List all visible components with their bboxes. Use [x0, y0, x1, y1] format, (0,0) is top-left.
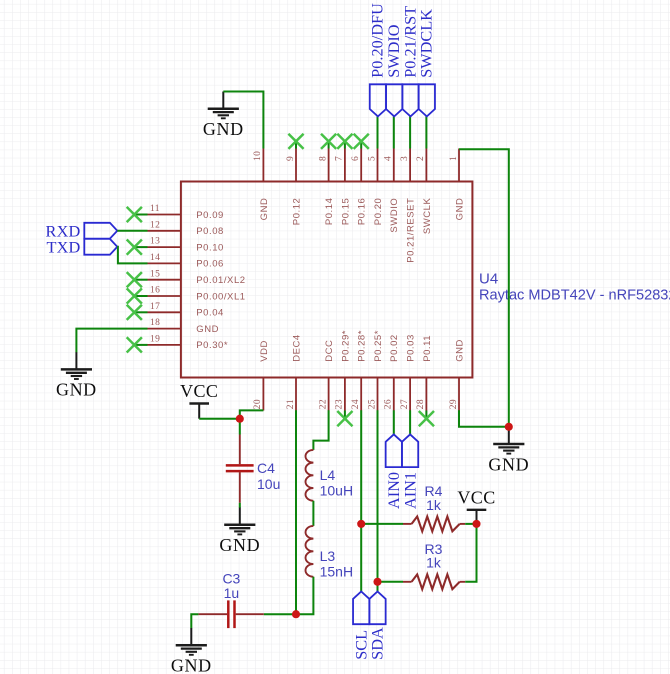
wire R3 left — [378, 581, 404, 583]
capacitor C3 — [198, 570, 263, 628]
svg-text:5: 5 — [367, 156, 377, 161]
svg-text:1: 1 — [449, 156, 459, 161]
wire P0.20/DFU flag to pin — [377, 116, 379, 148]
pin 10 GND (top) — [253, 149, 270, 221]
svg-text:28: 28 — [416, 399, 426, 409]
wire R3 right up to VCC junction — [465, 524, 476, 582]
pin 26 P0.02 (bottom) — [384, 334, 401, 410]
pin 4 SWDIO (top) — [384, 149, 401, 233]
svg-text:2: 2 — [416, 156, 426, 161]
netflag AIN1 — [400, 434, 419, 509]
svg-text:P0.25*: P0.25* — [373, 330, 384, 362]
netflag SCL — [351, 592, 370, 660]
ground symbol (left, pin 18) — [56, 352, 97, 400]
svg-text:P0.04: P0.04 — [196, 308, 224, 319]
svg-text:TXD: TXD — [46, 238, 80, 257]
svg-text:VCC: VCC — [180, 381, 218, 401]
svg-text:9: 9 — [286, 156, 296, 161]
pin 24 P0.28* (bottom) — [351, 330, 368, 411]
netflag TXD — [46, 238, 117, 257]
pin 11 P0.09 (left) — [148, 204, 224, 221]
wire C4 to ground — [239, 503, 241, 508]
svg-text:P0.14: P0.14 — [324, 198, 335, 226]
svg-text:GND: GND — [203, 119, 244, 139]
pin 17 P0.04 (left) — [148, 302, 224, 319]
no-connect flag pin 19 — [127, 337, 148, 352]
pin 21 DEC4 (bottom) — [286, 334, 303, 410]
pin 19 P0.30* (left) — [148, 335, 229, 352]
pin 7 P0.15 (top) — [335, 149, 352, 226]
pin 13 P0.10 (left) — [148, 237, 224, 254]
svg-text:3: 3 — [400, 156, 410, 161]
pin 20 VDD (bottom) — [253, 340, 270, 410]
svg-text:P0.10: P0.10 — [196, 242, 224, 253]
pin 28 P0.11 (bottom) — [416, 335, 433, 411]
wire pin25 down to SDA — [377, 410, 379, 591]
svg-text:14: 14 — [150, 253, 160, 263]
svg-text:P0.01/XL2: P0.01/XL2 — [196, 275, 245, 286]
svg-text:GND: GND — [488, 454, 529, 474]
svg-text:P0.21/RESET: P0.21/RESET — [406, 198, 417, 263]
inductor L4 — [306, 450, 354, 501]
svg-text:P0.16: P0.16 — [357, 198, 368, 226]
no-connect flag pin 11 — [127, 207, 148, 222]
svg-text:SDA: SDA — [368, 627, 387, 660]
svg-text:P0.20: P0.20 — [373, 198, 384, 226]
netflag SWDCLK — [417, 9, 436, 117]
no-connect flag pin 7 — [337, 134, 352, 149]
svg-text:10uH: 10uH — [320, 483, 353, 499]
no-connect flag pin 17 — [127, 305, 148, 320]
wire C3 left to ground — [191, 614, 198, 628]
pin 22 DCC (bottom) — [318, 340, 335, 411]
pin 29 GND (bottom) — [449, 339, 466, 410]
svg-text:SWCLK: SWCLK — [422, 197, 433, 234]
svg-text:12: 12 — [150, 220, 160, 230]
inductor L3 — [305, 526, 353, 580]
junction dot — [505, 423, 513, 431]
junction dot — [357, 520, 365, 528]
svg-text:DEC4: DEC4 — [291, 334, 302, 362]
ground symbol (right, pin 29) — [488, 427, 529, 475]
wire pin to AIN0 flag — [393, 410, 395, 434]
wire pin1 to right vertical bus — [459, 149, 509, 427]
wire pin10 to top ground — [223, 92, 263, 149]
no-connect flag pin 9 — [288, 134, 303, 149]
svg-text:13: 13 — [150, 237, 160, 247]
svg-text:P0.30*: P0.30* — [196, 340, 228, 351]
pin 18 GND (left) — [148, 318, 220, 335]
svg-text:VDD: VDD — [259, 340, 270, 362]
pin 25 P0.25* (bottom) — [367, 330, 384, 411]
svg-text:8: 8 — [318, 156, 328, 161]
svg-text:GND: GND — [56, 380, 97, 400]
wire TXD to pin14 — [117, 247, 147, 264]
svg-text:7: 7 — [335, 156, 345, 161]
junction dot — [292, 610, 300, 618]
svg-text:16: 16 — [150, 286, 160, 296]
svg-text:P0.00/XL1: P0.00/XL1 — [196, 291, 245, 302]
pin 14 P0.06 (left) — [148, 253, 224, 270]
svg-text:4: 4 — [384, 156, 394, 161]
pin 23 P0.29* (bottom) — [335, 330, 352, 411]
wire L4 to L3 — [312, 501, 314, 526]
junction dot — [373, 578, 381, 586]
netflag P0.21/RST — [400, 6, 419, 117]
svg-text:P0.12: P0.12 — [291, 198, 302, 226]
junction dot — [236, 415, 244, 423]
junction dot — [472, 520, 480, 528]
capacitor C4 — [226, 435, 281, 503]
no-connect flag pin 8 — [321, 134, 336, 149]
svg-text:19: 19 — [150, 335, 160, 345]
svg-text:SWDIO: SWDIO — [389, 198, 400, 233]
netflag AIN0 — [384, 434, 403, 509]
svg-text:15nH: 15nH — [320, 564, 353, 580]
pin 12 P0.08 (left) — [148, 220, 224, 237]
wire pin29 to ground junction — [459, 410, 509, 427]
pin 8 P0.14 (top) — [318, 149, 335, 226]
svg-text:P0.11: P0.11 — [422, 335, 433, 362]
svg-text:SWDCLK: SWDCLK — [417, 9, 436, 78]
svg-text:1k: 1k — [426, 497, 442, 513]
wire L3 down to C3 junction — [296, 577, 313, 614]
pin 9 P0.12 (top) — [286, 149, 303, 226]
svg-text:24: 24 — [351, 399, 361, 409]
svg-text:18: 18 — [150, 318, 160, 328]
netflag P0.20/DFU — [368, 3, 387, 116]
no-connect flag pin 16 — [127, 288, 148, 303]
pin 2 SWCLK (top) — [416, 149, 433, 235]
pin 16 P0.00/XL1 (left) — [148, 286, 246, 303]
svg-text:27: 27 — [400, 399, 410, 409]
svg-text:P0.29*: P0.29* — [340, 330, 351, 362]
svg-text:26: 26 — [384, 399, 394, 409]
wire RXD to pin12 — [117, 230, 147, 232]
wire junction to C4 — [239, 419, 241, 435]
wire pin to AIN1 flag — [409, 410, 411, 434]
wire SWDCLK flag to pin — [425, 116, 427, 148]
wire P0.21/RST flag to pin — [409, 116, 411, 148]
pin 6 P0.16 (top) — [351, 149, 368, 226]
netflag RXD — [46, 221, 118, 240]
svg-text:10: 10 — [253, 151, 263, 161]
wire pin24 down to SCL — [360, 410, 362, 591]
svg-text:17: 17 — [150, 302, 160, 312]
wire R4 left — [361, 523, 403, 525]
svg-text:GND: GND — [454, 198, 465, 221]
svg-text:C4: C4 — [257, 460, 275, 476]
svg-text:21: 21 — [286, 399, 296, 409]
svg-text:U4: U4 — [479, 271, 498, 288]
pin 5 P0.20 (top) — [367, 149, 384, 226]
resistor R4 — [403, 483, 465, 531]
svg-text:11: 11 — [150, 204, 160, 214]
svg-text:P0.03: P0.03 — [406, 334, 417, 362]
svg-text:AIN1: AIN1 — [400, 472, 419, 509]
pin 1 GND (top) — [449, 149, 466, 221]
svg-text:20: 20 — [253, 399, 263, 409]
svg-text:GND: GND — [454, 339, 465, 362]
netflag SDA — [368, 592, 387, 660]
svg-text:29: 29 — [449, 399, 459, 409]
svg-text:P0.08: P0.08 — [196, 226, 224, 237]
wire pin22 DCC to L4 — [313, 410, 328, 450]
svg-text:25: 25 — [367, 399, 377, 409]
svg-text:GND: GND — [196, 324, 219, 335]
no-connect flag pin 6 — [354, 134, 369, 149]
IC U4 body — [181, 182, 473, 378]
svg-text:P0.06: P0.06 — [196, 259, 224, 270]
svg-text:P0.02: P0.02 — [389, 334, 400, 362]
svg-text:P0.28*: P0.28* — [357, 330, 368, 362]
no-connect flag pin 23 — [337, 411, 352, 427]
svg-text:Raytac MDBT42V - nRF52832: Raytac MDBT42V - nRF52832 — [479, 287, 670, 304]
pin 27 P0.03 (bottom) — [400, 334, 417, 410]
svg-text:GND: GND — [259, 198, 270, 221]
svg-text:DCC: DCC — [324, 340, 335, 362]
wire pin21 DEC4 down to C3 junction — [295, 410, 297, 614]
power flag VCC (R4/R3) — [457, 487, 495, 524]
wire pin18 to left ground — [76, 329, 147, 353]
netflag SWDIO — [384, 24, 403, 116]
svg-text:L4: L4 — [320, 467, 336, 483]
svg-text:6: 6 — [351, 156, 361, 161]
svg-text:22: 22 — [318, 399, 328, 409]
svg-text:1u: 1u — [224, 585, 240, 601]
no-connect flag pin 28 — [419, 411, 434, 427]
wire SWDIO flag to pin — [393, 116, 395, 148]
power flag VCC (pin 20) — [180, 381, 218, 419]
no-connect flag pin 13 — [127, 240, 148, 255]
wire VCC to junction to pin20 — [199, 410, 263, 418]
svg-text:GND: GND — [219, 535, 260, 555]
svg-text:GND: GND — [171, 656, 212, 674]
ground symbol (under C4) — [219, 508, 260, 555]
wire R4 right to VCC junction — [465, 523, 476, 525]
pin 3 P0.21/RESET (top) — [400, 149, 417, 263]
svg-text:C3: C3 — [222, 570, 240, 586]
pin 15 P0.01/XL2 (left) — [148, 269, 246, 286]
ground symbol (bottom left, C3) — [171, 628, 212, 674]
resistor R3 — [403, 541, 465, 589]
svg-text:P0.09: P0.09 — [196, 210, 224, 221]
no-connect flag pin 15 — [127, 272, 148, 287]
svg-text:P0.15: P0.15 — [340, 198, 351, 226]
svg-text:L3: L3 — [320, 548, 336, 564]
svg-text:23: 23 — [335, 399, 345, 409]
ground symbol (top, pin 10) — [203, 92, 244, 140]
svg-text:VCC: VCC — [457, 487, 495, 507]
wire C3 right side to junction — [264, 613, 296, 615]
svg-text:10u: 10u — [257, 476, 280, 492]
svg-text:15: 15 — [150, 269, 160, 279]
svg-text:1k: 1k — [426, 555, 442, 571]
